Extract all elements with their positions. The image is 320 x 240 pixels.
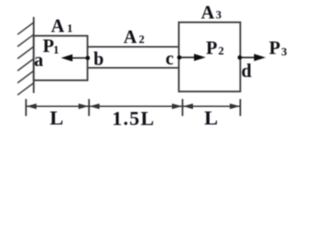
svg-text:d: d	[241, 62, 252, 82]
dimension line 1.5L (middle segment)	[89, 104, 183, 110]
svg-text:c: c	[166, 50, 174, 70]
svg-text:3: 3	[281, 47, 287, 59]
svg-text:P: P	[269, 39, 280, 59]
svg-text:1: 1	[53, 44, 59, 56]
fixed support wall	[33, 17, 35, 93]
svg-text:3: 3	[216, 9, 222, 21]
label A1	[51, 17, 73, 37]
bar segment A2 (thin bar)	[88, 47, 179, 68]
dimension line L (right segment)	[183, 104, 241, 110]
svg-text:L: L	[50, 108, 64, 130]
label P1	[43, 37, 60, 57]
label A3	[201, 3, 222, 23]
force arrow P2 (points right)	[179, 54, 205, 61]
svg-text:A: A	[124, 28, 138, 48]
label P2	[206, 39, 224, 59]
node label d	[241, 62, 252, 82]
node label c	[166, 50, 174, 70]
svg-text:2: 2	[218, 45, 224, 57]
node label a	[34, 51, 43, 71]
bar segment A1 box	[34, 36, 88, 81]
dimension ticks	[26, 99, 240, 116]
svg-text:P: P	[206, 39, 217, 59]
svg-text:L: L	[204, 108, 218, 130]
node c (dot)	[177, 55, 181, 59]
svg-text:1.5L: 1.5L	[112, 108, 155, 130]
node b (dot)	[86, 56, 90, 60]
node label b	[94, 50, 104, 70]
svg-text:2: 2	[139, 34, 145, 46]
svg-text:b: b	[94, 50, 104, 70]
dimension line L (left segment)	[26, 104, 89, 110]
dimension label L left	[50, 108, 64, 130]
node d (dot)	[238, 55, 242, 59]
svg-text:A: A	[201, 3, 215, 23]
label A2	[124, 28, 145, 48]
force arrow P1 (points left)	[61, 54, 88, 61]
dimension label 1.5L	[112, 108, 155, 130]
dimension label L right	[204, 108, 218, 130]
label P3	[269, 39, 287, 59]
svg-text:1: 1	[67, 23, 73, 35]
svg-text:A: A	[51, 17, 65, 37]
bar segment A3 box	[179, 22, 241, 91]
wall hatching	[18, 22, 34, 95]
force arrow P3 (points right)	[240, 54, 266, 61]
svg-text:a: a	[34, 51, 43, 71]
